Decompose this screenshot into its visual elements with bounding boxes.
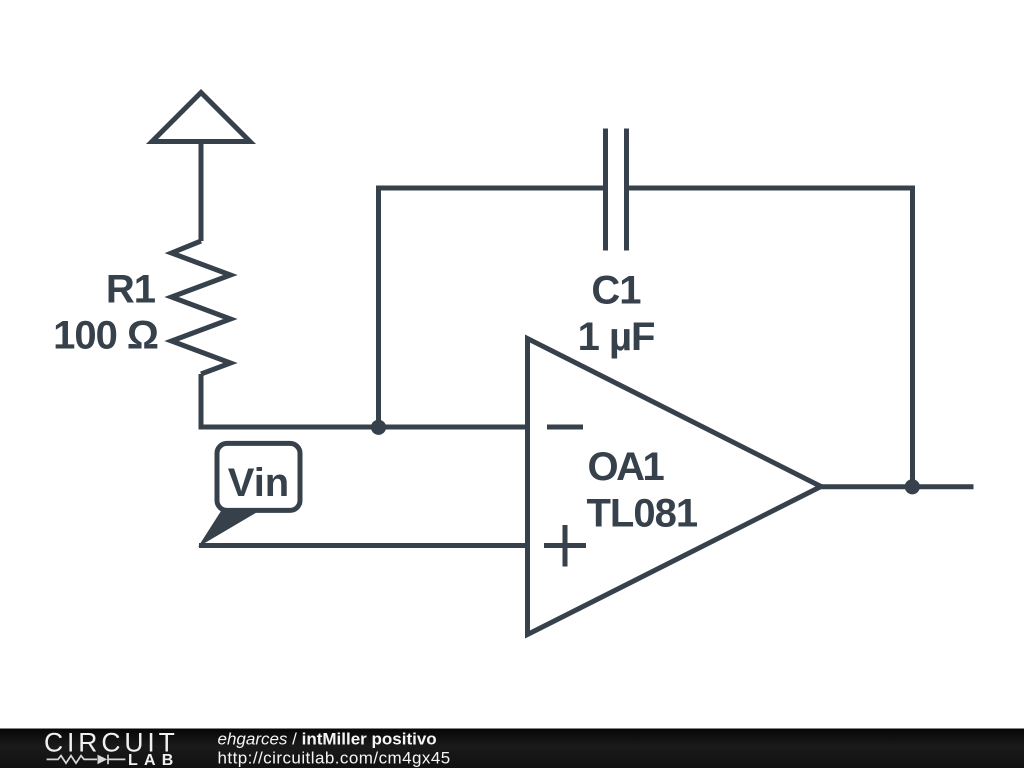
net flag Vin tail [198, 511, 259, 547]
wire inverting input (horizontal) [199, 425, 528, 430]
plus input symbol [544, 525, 586, 567]
wire output [821, 484, 974, 489]
svg-text:ehgarces / intMiller positivo: ehgarces / intMiller positivo [218, 730, 437, 749]
wire feedback riser left [376, 186, 381, 428]
svg-text:TL081: TL081 [587, 491, 698, 535]
node junction at inverting input [371, 420, 386, 435]
resistor R1 [172, 241, 231, 374]
power flag (supply arrow) [152, 93, 250, 242]
svg-text:OA1: OA1 [588, 445, 665, 489]
svg-text:Vin: Vin [228, 461, 290, 505]
wire feedback top right [629, 186, 913, 191]
wire feedback top left [376, 186, 603, 191]
svg-text:R1: R1 [106, 268, 156, 312]
capacitor C1 [606, 129, 627, 251]
svg-text:100 Ω: 100 Ω [53, 314, 158, 358]
svg-text:C1: C1 [591, 269, 641, 313]
wire feedback riser right [910, 186, 915, 487]
wire resistor bottom lead [199, 374, 204, 430]
op-amp OA1 [528, 339, 822, 635]
svg-text:http://circuitlab.com/cm4gx45: http://circuitlab.com/cm4gx45 [218, 749, 451, 768]
CircuitLab logo squiggle (resistor and diode) [47, 755, 126, 765]
wire noninverting input [199, 543, 528, 548]
svg-text:LAB: LAB [128, 752, 179, 768]
svg-text:1 µF: 1 µF [578, 315, 655, 359]
net flag Vin bubble [217, 443, 300, 510]
node junction at output [905, 479, 920, 494]
minus input symbol [547, 425, 583, 430]
